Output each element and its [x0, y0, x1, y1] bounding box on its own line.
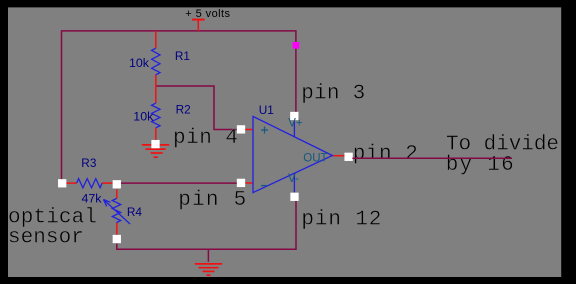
svg-text:pin 4: pin 4 [173, 127, 238, 150]
svg-text:R3: R3 [81, 156, 97, 170]
svg-text:V-: V- [288, 173, 299, 185]
svg-text:10k: 10k [133, 110, 154, 124]
svg-text:10k: 10k [129, 56, 150, 70]
svg-text:+ 5 volts: + 5 volts [185, 8, 230, 20]
svg-text:R2: R2 [176, 103, 191, 117]
svg-text:47k: 47k [82, 191, 103, 205]
svg-text:R4: R4 [127, 205, 143, 219]
svg-text:pin 2: pin 2 [353, 143, 418, 166]
svg-text:V+: V+ [288, 117, 303, 129]
svg-text:pin 5: pin 5 [178, 189, 246, 212]
svg-text:pin 3: pin 3 [301, 83, 365, 106]
svg-text:sensor: sensor [8, 227, 84, 250]
svg-text:R1: R1 [175, 49, 190, 63]
svg-text:OUT: OUT [303, 152, 327, 164]
svg-text:pin 12: pin 12 [301, 208, 381, 231]
svg-text:U1: U1 [259, 103, 274, 117]
